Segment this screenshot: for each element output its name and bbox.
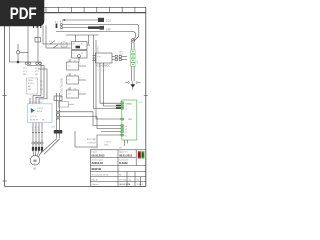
svg-text:4G1,5: 4G1,5 — [28, 83, 35, 85]
svg-text:Mfg. Nr.: Mfg. Nr. — [92, 178, 99, 181]
svg-text:USB A: USB A — [126, 102, 133, 105]
svg-text:SPS DIGITAL EING.: SPS DIGITAL EING. — [61, 77, 64, 98]
svg-text:No.: No. — [137, 179, 140, 181]
svg-text:08.03.2013: 08.03.2013 — [119, 154, 133, 158]
svg-text:The optional info list: The optional info list — [92, 174, 109, 177]
svg-text:-W3: -W3 — [51, 127, 56, 129]
svg-text:08.03.2013: 08.03.2013 — [92, 154, 106, 158]
svg-text:A2: A2 — [81, 43, 84, 46]
svg-text:T3: T3 — [38, 130, 40, 132]
svg-text:LiYY: LiYY — [119, 54, 124, 56]
svg-text:K-1042: K-1042 — [119, 161, 128, 165]
svg-text:1L1: 1L1 — [23, 68, 27, 70]
svg-text:Release: Release — [92, 184, 99, 186]
svg-text:K1: K1 — [68, 66, 71, 68]
svg-text:Om Now: Om Now — [119, 179, 127, 181]
svg-text:98: 98 — [42, 120, 45, 122]
svg-text:V1: V1 — [40, 85, 43, 87]
svg-text:24V: 24V — [106, 28, 111, 32]
svg-text:x2: x2 — [81, 53, 84, 55]
svg-text:GND: GND — [104, 145, 109, 147]
svg-text:M 3.0: M 3.0 — [37, 111, 43, 113]
svg-text:4T2: 4T2 — [35, 71, 40, 73]
svg-text:U1: U1 — [40, 81, 44, 83]
svg-text:1/L1 3/L2 5/L3: 1/L1 3/L2 5/L3 — [29, 102, 43, 104]
svg-text:2: 2 — [32, 127, 33, 129]
svg-text:A2013-04: A2013-04 — [92, 161, 104, 165]
svg-text:G1 +24VDC: G1 +24VDC — [97, 65, 111, 68]
svg-text:2T1: 2T1 — [23, 71, 28, 73]
svg-text:M1: M1 — [33, 169, 37, 171]
svg-text:OUT: OUT — [128, 119, 133, 121]
svg-text:+CN 5V: +CN 5V — [104, 142, 112, 144]
svg-text:1L1: 1L1 — [55, 21, 59, 23]
svg-text:AUX/TMP: AUX/TMP — [87, 138, 97, 141]
svg-text:K3: K3 — [68, 94, 71, 96]
svg-text:No.: No. — [119, 174, 122, 176]
svg-text:T1: T1 — [32, 130, 34, 132]
svg-text:PDF: PDF — [10, 5, 37, 23]
svg-text:BN: BN — [28, 89, 31, 91]
svg-text:SEW 90: SEW 90 — [92, 167, 102, 171]
svg-text:M: M — [34, 159, 37, 163]
svg-text:1: 1 — [142, 184, 144, 186]
svg-text:x1: x1 — [73, 53, 76, 55]
svg-text:DISPLAY: DISPLAY — [87, 142, 96, 145]
svg-text:T2: T2 — [35, 130, 37, 132]
svg-text:A1: A1 — [73, 43, 76, 46]
svg-text:L N: L N — [97, 57, 101, 59]
svg-text:2: 2 — [80, 78, 82, 80]
svg-text:2: 2 — [80, 64, 82, 66]
svg-text:PE: PE — [119, 148, 122, 150]
svg-text:PE: PE — [23, 74, 26, 76]
svg-text:24VDC: 24VDC — [97, 45, 99, 52]
svg-text:I> I> I>: I> I> I> — [30, 115, 37, 118]
svg-text:1: 1 — [129, 184, 131, 186]
svg-text:4: 4 — [35, 127, 36, 129]
svg-text:day: day — [129, 179, 132, 181]
svg-text:-X1 +5V: -X1 +5V — [91, 148, 99, 150]
svg-text:6: 6 — [38, 127, 39, 129]
svg-text:PS 21: PS 21 — [37, 108, 44, 110]
svg-text:95 96 97: 95 96 97 — [30, 120, 39, 122]
svg-text:2: 2 — [80, 92, 82, 94]
svg-text:X2: X2 — [137, 60, 139, 63]
svg-text:Approved: Approved — [119, 151, 127, 154]
svg-text:Datum: Datum — [92, 151, 98, 154]
svg-text:X10: X10 — [139, 102, 144, 104]
svg-text:1L2: 1L2 — [60, 21, 64, 23]
svg-text:W1: W1 — [40, 89, 44, 91]
svg-text:1: 1 — [129, 174, 130, 176]
svg-text:BK: BK — [28, 86, 31, 88]
svg-text:-W10: -W10 — [28, 80, 34, 82]
svg-text:K2: K2 — [68, 80, 71, 82]
svg-text:PE: PE — [35, 74, 38, 76]
svg-text:D: D — [63, 45, 65, 47]
svg-text:1Q1: 1Q1 — [106, 19, 111, 23]
